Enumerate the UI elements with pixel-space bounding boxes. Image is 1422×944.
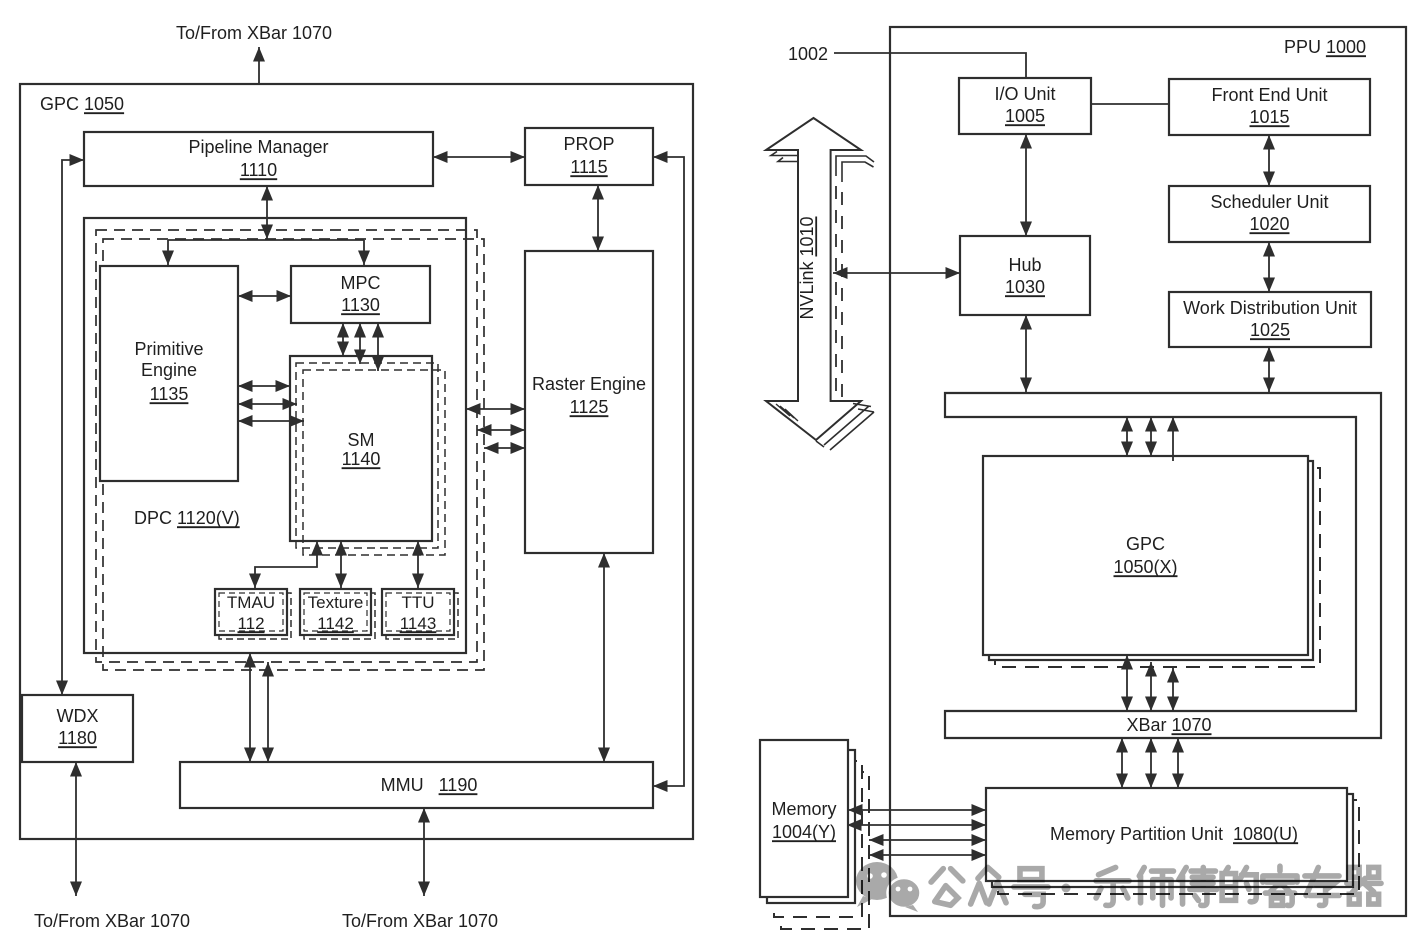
svg-text:1130: 1130	[341, 295, 380, 315]
svg-text:1135: 1135	[150, 384, 189, 404]
svg-text:Primitive: Primitive	[134, 339, 203, 359]
arrow Work Distribution to XBar top bar	[1268, 347, 1270, 392]
dashed inner TMAU	[219, 593, 283, 631]
dashed box Memory Partition instance 3	[998, 800, 1359, 894]
watermark char 乐	[1096, 867, 1129, 905]
box TMAU 112	[215, 589, 287, 635]
box Hub 1030	[960, 236, 1090, 315]
box I/O Unit 1005	[959, 78, 1091, 134]
arrow Primitive Engine to MPC	[238, 295, 291, 297]
arrow DPC to MMU 2	[267, 662, 269, 762]
arrow Primitive Engine to SM 3	[238, 420, 304, 422]
dashed inner TTU	[386, 593, 450, 631]
svg-text:Scheduler Unit: Scheduler Unit	[1210, 192, 1328, 212]
arrow XBar bar to GPC 3	[1172, 417, 1174, 461]
svg-text:PROP: PROP	[563, 134, 614, 154]
svg-text:GPC 1050: GPC 1050	[40, 94, 124, 114]
box Raster Engine 1125	[525, 251, 653, 553]
wire 1002 to I/O Unit	[834, 53, 1026, 78]
svg-text:NVLink 1010: NVLink 1010	[797, 216, 817, 319]
wire PROP to MMU right side	[653, 157, 684, 786]
arrow MPC to SM 2	[359, 323, 361, 364]
svg-text:Hub: Hub	[1008, 255, 1041, 275]
svg-text:GPC: GPC	[1126, 534, 1165, 554]
svg-text:1125: 1125	[570, 397, 609, 417]
svg-text:Front End Unit: Front End Unit	[1211, 85, 1327, 105]
arrow MMU to XBar (bottom)	[423, 808, 425, 896]
dashed echo Texture	[304, 593, 375, 639]
svg-text:1050(X): 1050(X)	[1113, 557, 1177, 577]
arrow Primitive Engine to SM 2	[238, 403, 297, 405]
box XBar 1070 (C-shaped bus)	[945, 393, 1381, 738]
watermark char 众	[971, 867, 1006, 904]
arrow Memory to MPU 4	[869, 854, 986, 856]
arrow DPC to Raster Engine 1	[466, 408, 525, 410]
arrow I/O Unit to Hub	[1025, 134, 1027, 236]
svg-text:1142: 1142	[317, 614, 354, 633]
box Pipeline Manager 1110	[84, 132, 433, 186]
box Primitive Engine 1135	[100, 266, 238, 481]
svg-text:1030: 1030	[1005, 277, 1045, 297]
watermark char 的	[1222, 867, 1256, 901]
svg-text:Memory: Memory	[771, 799, 836, 819]
dashed box SM instance 3	[303, 370, 445, 555]
svg-text:XBar 1070: XBar 1070	[1126, 715, 1211, 735]
box Scheduler Unit 1020	[1169, 186, 1370, 242]
arrow Scheduler to Work Distribution	[1268, 242, 1270, 292]
watermark char 傅	[1179, 867, 1217, 905]
box WDX 1180	[22, 695, 133, 762]
box PROP 1115	[525, 128, 653, 185]
arrow branch to MPC	[363, 240, 365, 265]
wire WDX to Pipeline Manager	[62, 160, 84, 695]
arrow DPC to Raster Engine 2	[477, 429, 525, 431]
outer box GPC 1050	[20, 84, 693, 839]
arrow Pipeline Manager to PROP	[433, 156, 525, 158]
arrow MPC to SM 3	[377, 323, 379, 371]
svg-text:1140: 1140	[342, 449, 381, 469]
arrow Memory to MPU 1	[848, 809, 986, 811]
arrow PROP to Raster Engine	[597, 185, 599, 251]
svg-text:1002: 1002	[788, 44, 828, 64]
svg-text:MMU 1190: MMU 1190	[381, 775, 478, 795]
watermark char 寄	[1263, 866, 1297, 905]
arrow GPC to XBar 2	[1150, 662, 1152, 711]
watermark char 公	[931, 869, 963, 906]
arrow SM to TTU	[417, 541, 419, 588]
outer box PPU 1000	[890, 27, 1406, 916]
svg-text:PPU 1000: PPU 1000	[1284, 37, 1366, 57]
NVLink 1010 big double arrow	[766, 118, 874, 450]
arrow Raster Engine to MMU	[603, 553, 605, 762]
svg-text:Engine: Engine	[141, 360, 197, 380]
svg-text:TTU: TTU	[401, 593, 434, 612]
arrow SM to Texture	[340, 541, 342, 588]
watermark char 存	[1305, 867, 1339, 905]
box TTU 1143	[382, 589, 454, 635]
dashed box SM instance 2	[296, 363, 438, 548]
arrow XBar to Memory Partition 3	[1177, 738, 1179, 788]
svg-text:1115: 1115	[570, 157, 607, 177]
dashed box Memory instance 4	[781, 772, 869, 929]
arrow Front End to Scheduler	[1268, 135, 1270, 186]
arrow XBar bar to GPC 2	[1150, 417, 1152, 456]
arrow Pipeline Manager to DPC branch	[266, 186, 268, 239]
arrow XBar to Memory Partition 2	[1150, 738, 1152, 788]
svg-text:DPC 1120(V): DPC 1120(V)	[134, 508, 240, 528]
watermark text 公众号 · 乐师傅的寄存器	[931, 866, 1381, 906]
wire branch to Primitive Engine and MPC	[168, 239, 364, 241]
svg-text:Memory Partition Unit 1080(U): Memory Partition Unit 1080(U)	[1050, 824, 1298, 844]
box Memory Partition Unit 1080(U)	[986, 788, 1347, 881]
svg-text:Pipeline Manager: Pipeline Manager	[188, 137, 328, 157]
arrow Primitive Engine to SM 1	[238, 385, 290, 387]
arrow Memory to MPU 3	[869, 839, 986, 841]
box Work Distribution Unit 1025	[1169, 292, 1371, 347]
box Front End Unit 1015	[1169, 79, 1370, 135]
arrow GPC to XBar 1	[1126, 655, 1128, 711]
box Texture 1142	[300, 589, 371, 635]
arrow XBar to Memory Partition 1	[1121, 738, 1123, 788]
box Memory instance 2	[767, 750, 855, 903]
dashed echo TTU	[386, 593, 458, 639]
box Memory 1004(Y)	[760, 740, 848, 897]
arrow Hub to XBar top bar	[1025, 315, 1027, 392]
dashed box DPC instance 2	[96, 230, 477, 662]
arrow NVLink to Hub	[833, 272, 960, 274]
watermark char 器	[1347, 867, 1381, 904]
box SM 1140	[290, 356, 432, 541]
svg-text:Raster Engine: Raster Engine	[532, 374, 646, 394]
dashed box GPC instance 3	[995, 468, 1320, 667]
arrow branch to Primitive Engine	[167, 240, 169, 265]
svg-text:1143: 1143	[400, 614, 437, 633]
arrow WDX to XBar (bottom)	[75, 762, 77, 896]
wire I/O Unit to Front End Unit	[1091, 103, 1169, 105]
svg-text:1004(Y): 1004(Y)	[772, 822, 836, 842]
svg-text:1015: 1015	[1249, 107, 1289, 127]
arrow SM to TMAU	[255, 541, 317, 588]
svg-text:I/O Unit: I/O Unit	[994, 84, 1055, 104]
svg-text:1020: 1020	[1249, 214, 1289, 234]
arrow MPC to SM 1	[342, 323, 344, 356]
watermark WeChat icon	[856, 862, 1381, 912]
dashed box DPC instance 3	[103, 239, 484, 670]
svg-text:1110: 1110	[240, 160, 277, 180]
svg-text:To/From XBar 1070: To/From XBar 1070	[342, 911, 498, 931]
box DPC container (solid)	[84, 218, 466, 653]
arrow Memory to MPU 2	[847, 824, 986, 826]
arrow DPC to MMU 1	[249, 653, 251, 762]
svg-text:MPC: MPC	[341, 273, 381, 293]
arrow XBar to Pipeline Manager	[258, 47, 260, 131]
svg-text:Texture: Texture	[308, 593, 364, 612]
arrow XBar bar to GPC 1	[1126, 417, 1128, 456]
box MPC 1130	[291, 266, 430, 323]
svg-text:To/From XBar 1070: To/From XBar 1070	[176, 23, 332, 43]
box GPC instance 2	[989, 461, 1313, 660]
box GPC 1050(X)	[983, 456, 1308, 655]
svg-text:1005: 1005	[1005, 106, 1045, 126]
dashed inner Texture	[304, 593, 367, 631]
svg-text:WDX: WDX	[57, 706, 99, 726]
dashed box Memory instance 3	[774, 761, 862, 917]
svg-text:112: 112	[237, 614, 264, 633]
watermark char 号	[1014, 869, 1048, 907]
box MMU 1190	[180, 762, 653, 808]
svg-text:1180: 1180	[58, 728, 97, 748]
svg-text:To/From XBar 1070: To/From XBar 1070	[34, 911, 190, 931]
arrow DPC to Raster Engine 3	[484, 447, 525, 449]
dashed echo TMAU	[219, 593, 291, 639]
svg-text:TMAU: TMAU	[227, 593, 275, 612]
svg-text:SM: SM	[348, 430, 375, 450]
svg-text:Work Distribution Unit: Work Distribution Unit	[1183, 298, 1357, 318]
box Memory Partition instance 2	[992, 794, 1353, 887]
svg-text:1025: 1025	[1250, 320, 1290, 340]
watermark char 师	[1139, 867, 1173, 905]
arrow GPC to XBar 3	[1172, 668, 1174, 711]
